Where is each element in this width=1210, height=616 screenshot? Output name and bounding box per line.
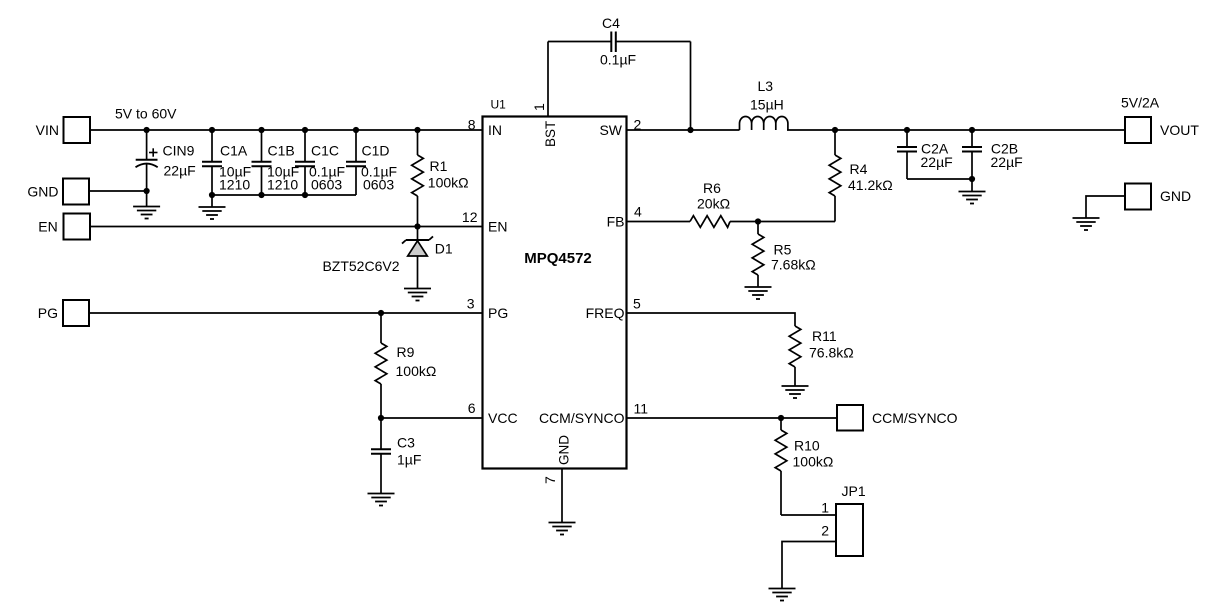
svg-text:3: 3 — [467, 296, 475, 312]
node VOUT-C2A — [904, 127, 910, 133]
svg-text:41.2kΩ: 41.2kΩ — [848, 177, 893, 193]
node VOUT-C2B — [969, 127, 975, 133]
svg-text:PG: PG — [38, 305, 58, 321]
svg-text:VOUT: VOUT — [1160, 122, 1199, 138]
svg-text:U1: U1 — [491, 98, 507, 112]
wire GND box to CIN9 — [89, 190, 147, 192]
svg-text:FREQ: FREQ — [586, 305, 625, 321]
svg-text:C4: C4 — [602, 15, 620, 31]
svg-text:20kΩ: 20kΩ — [697, 196, 730, 212]
svg-text:2: 2 — [821, 523, 829, 539]
svg-text:PG: PG — [488, 305, 508, 321]
svg-text:7: 7 — [542, 476, 558, 484]
svg-text:1210: 1210 — [267, 177, 298, 193]
capacitor C2B — [962, 130, 982, 179]
svg-text:100kΩ: 100kΩ — [428, 175, 469, 191]
svg-text:11: 11 — [634, 400, 649, 416]
wire BST pin 1 riser — [547, 42, 549, 117]
wire VCC — [381, 417, 483, 419]
node CCM-R10 — [778, 415, 784, 421]
svg-text:R5: R5 — [774, 241, 792, 257]
svg-text:15µH: 15µH — [750, 97, 784, 113]
ground under JP1 — [769, 589, 796, 601]
svg-text:R4: R4 — [850, 161, 868, 177]
resistor R10 — [775, 418, 787, 515]
terminal EN — [64, 214, 91, 240]
svg-text:12: 12 — [462, 209, 478, 225]
node VIN-C1C — [302, 127, 308, 133]
ground under C3 — [368, 494, 395, 506]
capacitor C2A — [897, 130, 917, 179]
diode D1 zener — [402, 227, 433, 289]
svg-text:1: 1 — [531, 103, 547, 111]
svg-text:100kΩ: 100kΩ — [793, 454, 834, 470]
svg-text:22µF: 22µF — [164, 163, 196, 179]
svg-text:SW: SW — [599, 122, 622, 138]
svg-text:76.8kΩ: 76.8kΩ — [809, 344, 854, 360]
wire C2B ground drop — [971, 179, 973, 191]
svg-text:VIN: VIN — [36, 122, 59, 138]
svg-text:5: 5 — [633, 296, 641, 312]
terminal CCM/SYNCO — [837, 405, 863, 431]
node rail-C1B — [258, 192, 264, 198]
wire GND terminal right — [1086, 196, 1125, 218]
svg-text:6: 6 — [468, 400, 476, 416]
wire FREQ rail — [627, 313, 796, 326]
terminal GND right — [1125, 184, 1151, 210]
resistor R9 — [375, 313, 387, 418]
capacitor CIN9 — [136, 130, 158, 206]
capacitor C1C — [295, 130, 315, 195]
wire PG rail — [89, 312, 483, 314]
node PG-R9 — [378, 310, 384, 316]
node VIN-C1B — [258, 127, 264, 133]
node VIN-CIN9 — [144, 127, 150, 133]
svg-text:R11: R11 — [812, 328, 837, 344]
resistor R1 — [412, 130, 424, 227]
wire FB rail — [627, 221, 691, 223]
node C2rail-gnd — [969, 176, 975, 182]
node FB-R5 — [755, 218, 761, 224]
wire CCM/SYNCO rail — [627, 417, 838, 419]
resistor R11 — [789, 326, 801, 386]
svg-text:4: 4 — [634, 203, 642, 219]
svg-text:C1B: C1B — [268, 143, 295, 159]
ground under CIN9 — [133, 207, 160, 219]
resistor R4 — [829, 130, 841, 222]
svg-text:5V to 60V: 5V to 60V — [115, 105, 177, 121]
node rail-C1C — [302, 192, 308, 198]
terminal VIN — [64, 117, 91, 143]
ground under U1 pin7 — [549, 523, 576, 535]
wire output cap bottom rail — [907, 178, 972, 180]
svg-text:MPQ4572: MPQ4572 — [524, 250, 592, 267]
svg-text:EN: EN — [488, 219, 507, 235]
svg-text:1µF: 1µF — [397, 452, 421, 468]
wire GND pin 7 — [561, 469, 563, 523]
svg-text:5V/2A: 5V/2A — [1121, 95, 1160, 111]
capacitor C1B — [252, 130, 272, 195]
svg-text:FB: FB — [607, 214, 625, 230]
wire C1A ground drop — [211, 195, 213, 207]
svg-text:22µF: 22µF — [921, 154, 953, 170]
node SW-C4 — [687, 127, 693, 133]
svg-text:R10: R10 — [794, 438, 820, 454]
svg-text:CIN9: CIN9 — [163, 143, 195, 159]
svg-text:GND: GND — [27, 183, 58, 199]
svg-text:CCM/SYNCO: CCM/SYNCO — [872, 410, 958, 426]
capacitor C3 — [371, 418, 391, 493]
ground under R5 — [745, 287, 772, 299]
wire VIN rail — [90, 129, 483, 131]
terminal PG — [63, 300, 89, 326]
ground under right GND terminal — [1073, 218, 1100, 230]
svg-text:GND: GND — [1160, 188, 1191, 204]
svg-text:BST: BST — [543, 121, 558, 147]
node VIN-C1D — [353, 127, 359, 133]
wire EN rail — [90, 226, 483, 228]
wire input cap bottom rail — [212, 194, 356, 196]
svg-text:2: 2 — [634, 117, 642, 133]
resistor R6 — [690, 216, 730, 228]
ground under R11 — [782, 386, 809, 398]
svg-text:0603: 0603 — [363, 177, 394, 193]
capacitor C1D — [346, 130, 366, 195]
node VIN-R1 — [414, 127, 420, 133]
svg-text:R1: R1 — [430, 158, 448, 174]
op-amp U1 MPQ4572 IC body — [483, 117, 627, 469]
svg-text:C1C: C1C — [311, 143, 339, 159]
svg-text:L3: L3 — [758, 78, 774, 94]
resistor R5 — [752, 222, 764, 287]
capacitor C4 — [548, 32, 691, 131]
ground under D1 — [404, 289, 431, 301]
svg-text:C3: C3 — [397, 435, 415, 451]
node SW-R4 — [832, 127, 838, 133]
node VIN-C1A — [209, 127, 215, 133]
terminal GND — [63, 179, 89, 205]
svg-text:R6: R6 — [703, 180, 721, 196]
node VCC-C3 — [378, 415, 384, 421]
connector JP1 — [836, 504, 863, 556]
svg-text:C1A: C1A — [220, 143, 248, 159]
svg-text:C1D: C1D — [362, 143, 390, 159]
ground under C1A — [199, 207, 226, 219]
svg-text:1: 1 — [821, 500, 829, 516]
svg-text:GND: GND — [557, 435, 572, 465]
wire R6 to R4 — [730, 221, 835, 223]
svg-text:BZT52C6V2: BZT52C6V2 — [322, 258, 399, 274]
svg-text:7.68kΩ: 7.68kΩ — [771, 257, 816, 273]
wire SW to inductor — [627, 129, 740, 131]
svg-text:22µF: 22µF — [991, 154, 1023, 170]
svg-text:IN: IN — [488, 122, 502, 138]
svg-text:100kΩ: 100kΩ — [396, 363, 437, 379]
inductor L3 — [740, 116, 788, 130]
svg-text:JP1: JP1 — [842, 483, 866, 499]
svg-text:VCC: VCC — [488, 410, 518, 426]
node GND-CIN9 — [144, 188, 150, 194]
node EN-D1 — [414, 223, 420, 229]
svg-text:0.1µF: 0.1µF — [600, 52, 636, 68]
svg-text:8: 8 — [468, 116, 476, 132]
capacitor C1A — [202, 130, 222, 195]
svg-text:1210: 1210 — [219, 177, 250, 193]
wire R10 to JP1 pin1 — [781, 514, 836, 516]
terminal VOUT — [1125, 117, 1151, 143]
svg-text:CCM/SYNCO: CCM/SYNCO — [539, 410, 625, 426]
wire inductor to VOUT — [787, 129, 1125, 131]
svg-text:EN: EN — [38, 218, 57, 234]
wire JP1 pin2 — [782, 542, 836, 589]
svg-text:R9: R9 — [397, 344, 415, 360]
svg-text:D1: D1 — [435, 241, 453, 257]
node rail-C1A — [209, 192, 215, 198]
svg-text:0603: 0603 — [311, 177, 342, 193]
ground under C2B — [959, 192, 986, 204]
